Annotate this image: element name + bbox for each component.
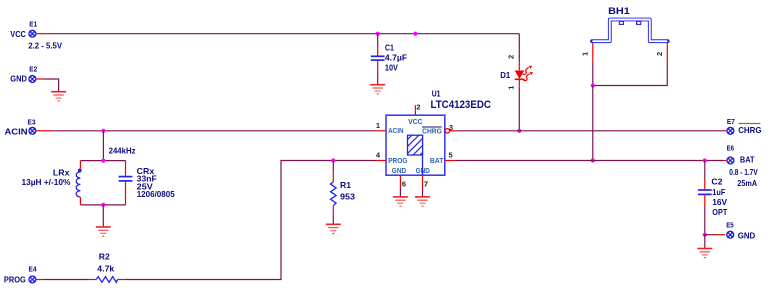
svg-text:1uF: 1uF xyxy=(712,187,725,197)
svg-text:GND: GND xyxy=(392,166,407,175)
svg-text:BH1: BH1 xyxy=(608,6,631,17)
svg-text:1: 1 xyxy=(376,121,380,130)
svg-text:244kHz: 244kHz xyxy=(109,145,136,155)
svg-text:BAT: BAT xyxy=(430,156,444,165)
svg-text:16V: 16V xyxy=(712,197,727,207)
ground C1 xyxy=(370,85,385,94)
svg-text:E5: E5 xyxy=(726,221,734,230)
wire E4 to R2 xyxy=(44,279,89,281)
pin 6 GND xyxy=(399,175,401,188)
svg-text:C1: C1 xyxy=(385,43,394,53)
wire BH1 down to BAT rail xyxy=(592,86,594,161)
svg-text:E2: E2 xyxy=(29,64,37,73)
wire VCC rail xyxy=(51,33,520,35)
capacitor C2 xyxy=(698,161,728,235)
svg-text:CHRG: CHRG xyxy=(422,126,442,135)
pin 4 PROG xyxy=(376,160,386,162)
svg-text:ACIN: ACIN xyxy=(388,126,404,135)
svg-text:E6: E6 xyxy=(727,144,735,153)
svg-text:D1: D1 xyxy=(500,70,510,80)
svg-text:ACIN: ACIN xyxy=(5,127,28,137)
wire BH1 pins to junction xyxy=(592,61,594,85)
ground U1 pin7 xyxy=(415,197,430,206)
svg-text:LTC4123EDC: LTC4123EDC xyxy=(431,99,491,111)
node junction tank bottom xyxy=(101,203,105,207)
svg-text:13µH +/-10%: 13µH +/-10% xyxy=(22,177,71,187)
svg-text:2: 2 xyxy=(655,52,664,56)
capacitor CRx xyxy=(119,161,175,205)
svg-text:VCC: VCC xyxy=(10,29,26,39)
svg-text:5: 5 xyxy=(449,151,453,160)
resistor R2 xyxy=(88,252,127,283)
terminal E4 xyxy=(4,265,44,285)
svg-text:R2: R2 xyxy=(99,252,110,262)
wire tank loop bottom xyxy=(80,204,125,206)
svg-text:1206/0805: 1206/0805 xyxy=(137,189,175,199)
svg-text:R1: R1 xyxy=(340,180,351,190)
node junction BH1/BAT xyxy=(591,158,595,162)
pin 2 VCC xyxy=(414,105,416,115)
svg-text:2: 2 xyxy=(416,103,420,112)
capacitor C1 xyxy=(371,34,407,85)
wire R2 to corner up to PROG pin xyxy=(126,161,376,280)
ground E2 xyxy=(51,92,66,101)
svg-text:C2: C2 xyxy=(711,177,722,187)
node junction C1/VCC xyxy=(376,32,380,36)
svg-text:7: 7 xyxy=(424,179,428,188)
svg-text:BAT: BAT xyxy=(740,154,755,164)
svg-text:10V: 10V xyxy=(385,62,398,72)
inductor LRx xyxy=(22,161,82,205)
node junction BH1 xyxy=(591,83,595,87)
node junction C2/E5 xyxy=(703,233,707,237)
svg-text:2: 2 xyxy=(507,55,516,59)
ground C2 xyxy=(697,249,712,258)
wire VCC corner down to D1 xyxy=(518,34,520,62)
svg-text:6: 6 xyxy=(402,179,406,188)
terminal E2 xyxy=(10,64,44,83)
svg-text:LRx: LRx xyxy=(53,167,70,177)
ground tank xyxy=(96,227,111,236)
svg-text:1: 1 xyxy=(507,86,516,90)
terminal E3 xyxy=(5,118,51,137)
LED D1 xyxy=(500,55,533,90)
wire tank stem xyxy=(102,131,104,161)
pin 5 BAT xyxy=(445,160,455,162)
svg-text:4.7µF: 4.7µF xyxy=(385,52,407,62)
battery holder BH1 xyxy=(581,6,668,61)
svg-text:GND: GND xyxy=(10,74,27,84)
wire tank to ground xyxy=(102,205,104,227)
node junction tank top xyxy=(101,159,105,163)
wire BAT rail xyxy=(455,160,722,162)
svg-text:1: 1 xyxy=(581,52,590,56)
pin 1 ACIN xyxy=(376,130,386,132)
svg-text:U1: U1 xyxy=(432,89,441,99)
node junction R1/PROG xyxy=(331,158,335,162)
svg-text:CHRG: CHRG xyxy=(738,125,762,135)
terminal E5 xyxy=(716,221,755,241)
svg-text:0.8 - 1.7V: 0.8 - 1.7V xyxy=(729,167,758,177)
svg-text:PROG: PROG xyxy=(4,274,26,284)
svg-text:PROG: PROG xyxy=(388,156,407,165)
svg-text:E1: E1 xyxy=(29,20,37,29)
node junction C2/BAT xyxy=(703,158,707,162)
svg-text:953: 953 xyxy=(340,191,355,201)
terminal E1 xyxy=(10,20,62,51)
wire ACIN rail xyxy=(51,130,376,132)
node junction D1/CHRG xyxy=(517,129,521,133)
ground U1 pin6 xyxy=(393,197,408,206)
terminal E6 xyxy=(723,144,758,188)
svg-text:2.2 - 5.5V: 2.2 - 5.5V xyxy=(28,41,62,51)
op-amp U1 box LTC4123EDC xyxy=(376,89,491,197)
terminal E7 xyxy=(723,117,762,135)
wire C2 junction to ground xyxy=(704,235,706,249)
svg-text:4.7k: 4.7k xyxy=(97,264,114,274)
hatched exposed pad inside U1 xyxy=(404,127,431,175)
wire CHRG rail xyxy=(456,130,723,132)
svg-text:OPT: OPT xyxy=(712,207,728,217)
node junction ACIN/tank xyxy=(101,129,105,133)
svg-text:3: 3 xyxy=(449,123,453,132)
wire D1 to CHRG rail xyxy=(518,88,520,131)
svg-text:E3: E3 xyxy=(28,118,36,127)
pin 3 CHRG xyxy=(445,129,449,133)
svg-text:E4: E4 xyxy=(29,265,38,274)
node junction U1-VCC/VCC xyxy=(413,32,417,36)
wire junction to E5 xyxy=(705,234,716,236)
wire tank loop top xyxy=(80,160,125,162)
svg-text:25mA: 25mA xyxy=(737,178,757,188)
resistor R1 xyxy=(331,161,356,225)
pin 7 GND xyxy=(422,175,424,188)
wire E2 to ground xyxy=(44,79,59,92)
svg-text:GND: GND xyxy=(738,231,756,241)
svg-text:VCC: VCC xyxy=(408,117,423,126)
ground R1 xyxy=(326,224,341,233)
svg-text:E7: E7 xyxy=(727,117,735,126)
